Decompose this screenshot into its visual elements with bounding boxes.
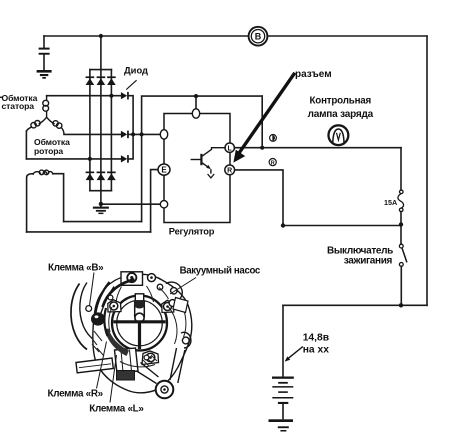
wire rotor left lead bbox=[27, 174, 33, 232]
bottom bracket bbox=[142, 351, 159, 365]
alternator body outline bbox=[93, 274, 192, 393]
wire field node riser bbox=[142, 96, 263, 134]
wire B+ right side bbox=[426, 36, 428, 305]
hatching lower left bbox=[105, 329, 130, 357]
diode VD2 bridge top middle bbox=[97, 76, 106, 85]
fuse F1 15A bbox=[398, 190, 404, 212]
node marker circled L bbox=[270, 135, 277, 142]
leader line B bbox=[90, 273, 95, 306]
wire battery bottom bbox=[283, 304, 427, 306]
wire bridge feed bbox=[100, 36, 102, 70]
ignition switch S1 bbox=[399, 244, 407, 266]
left ear plate bbox=[108, 300, 121, 312]
wire E terminal loop bbox=[151, 170, 159, 232]
regulator box U1 bbox=[164, 114, 230, 223]
label stator winding bbox=[0, 96, 3, 98]
wire battery drop bbox=[282, 305, 284, 376]
wire bridge to ground bbox=[100, 191, 102, 207]
svg-text:ротора: ротора bbox=[34, 146, 63, 156]
diode bridge top bar bbox=[90, 69, 112, 71]
stator winding symbol bbox=[26, 96, 64, 135]
svg-text:статора: статора bbox=[2, 101, 35, 111]
diode bridge column 1 bbox=[89, 70, 91, 191]
wire trio D3 output bbox=[129, 134, 133, 159]
main ground symbol bbox=[93, 207, 109, 215]
wire fuse to switch bbox=[400, 212, 402, 245]
claw prong outer bbox=[71, 284, 87, 350]
terminal L bbox=[225, 143, 234, 152]
diode bridge column 3 bbox=[110, 70, 112, 191]
regulator terminal top bbox=[192, 109, 199, 118]
node marker circled R bbox=[269, 159, 276, 167]
wire rotor inner bottom bbox=[64, 221, 142, 223]
junction fuse-switch node bbox=[399, 222, 403, 226]
body casting details bbox=[109, 286, 186, 367]
svg-text:Диод: Диод bbox=[124, 65, 148, 76]
connector block terminal L bbox=[115, 348, 139, 374]
hatching below wheel bbox=[143, 355, 157, 366]
wire R terminal line bbox=[235, 170, 401, 226]
capacitor C1 plates bbox=[39, 48, 50, 55]
junction battery rail bbox=[399, 303, 403, 307]
body heavy edge arc bbox=[103, 280, 135, 308]
junction L lamp node bbox=[260, 146, 264, 150]
arm to idler bbox=[135, 363, 159, 384]
wire trio D2 output to regulator bbox=[129, 133, 164, 135]
bolt left bbox=[86, 306, 92, 312]
svg-text:зажигания: зажигания bbox=[344, 255, 393, 266]
diode VD6 bridge bottom right bbox=[107, 172, 116, 181]
junction trio output bbox=[131, 132, 135, 136]
transistor Q1 emitter arrow bbox=[206, 165, 211, 169]
svg-text:R: R bbox=[271, 160, 275, 166]
shaft bbox=[135, 301, 145, 317]
wire switch to battery line bbox=[400, 266, 402, 305]
svg-text:Клемма «В»: Клемма «В» bbox=[48, 263, 104, 274]
claw prong inner bbox=[80, 283, 94, 340]
junction ground node bbox=[99, 202, 103, 206]
svg-text:E: E bbox=[161, 165, 167, 174]
leader line vacuum pump bbox=[170, 278, 196, 295]
svg-text:разъем: разъем bbox=[295, 69, 332, 80]
junction regulator top feed bbox=[194, 94, 198, 98]
alternator pictorial bbox=[71, 272, 196, 403]
diode bridge column 2 bbox=[100, 70, 102, 191]
junction R wire corner bbox=[281, 223, 285, 227]
wire phase 3 row bbox=[26, 158, 121, 160]
charge lamp bbox=[329, 125, 349, 145]
capacitor C1 lead bottom bbox=[43, 55, 45, 70]
annotation arrow 14.8v bbox=[285, 347, 303, 362]
svg-text:на хх: на хх bbox=[303, 344, 330, 355]
ground under battery bbox=[269, 419, 294, 431]
diode VD3 bridge top right bbox=[107, 76, 116, 85]
pump wheel bbox=[112, 296, 167, 351]
rotor winding symbol bbox=[33, 170, 53, 175]
svg-text:L: L bbox=[228, 145, 233, 152]
svg-text:14,8в: 14,8в bbox=[303, 332, 329, 343]
terminal B blob bbox=[91, 312, 105, 325]
wire ground to regulator bbox=[101, 203, 164, 205]
ground under capacitor bbox=[37, 70, 52, 79]
capacitor C1 lead top bbox=[43, 36, 45, 48]
wire field node lower bbox=[141, 134, 143, 221]
transistor Q1 bbox=[191, 148, 225, 178]
idler circle bbox=[156, 381, 174, 399]
wire rotor outer bottom bbox=[27, 231, 151, 233]
junction field node bbox=[140, 132, 144, 136]
right ear top bbox=[166, 282, 182, 300]
wire node to regulator top bbox=[195, 96, 197, 109]
right ear plate bbox=[162, 300, 174, 312]
regulator terminal lower-left bbox=[160, 201, 167, 208]
terminal B output bbox=[249, 27, 268, 46]
wire phase 2 row bbox=[64, 133, 121, 135]
leader line L bbox=[110, 355, 117, 403]
right side bolt bbox=[169, 300, 176, 307]
terminal B cable bbox=[96, 282, 110, 313]
wire phase 1 row bbox=[47, 95, 121, 97]
svg-text:R: R bbox=[227, 168, 232, 175]
strut to idler bbox=[170, 348, 185, 383]
battery lower lead bbox=[282, 404, 284, 419]
svg-text:Клемма «L»: Клемма «L» bbox=[89, 404, 144, 415]
junction phase1-column3 bbox=[109, 94, 113, 98]
diode VD1 bridge top left bbox=[86, 76, 95, 85]
svg-text:Регулятор: Регулятор bbox=[169, 226, 215, 236]
right lower ear bbox=[181, 332, 191, 348]
wire rotor right lead bbox=[53, 174, 64, 222]
wire B+ top bbox=[44, 35, 427, 37]
wire trio D1 output bbox=[129, 96, 133, 135]
wheel spokes bbox=[113, 322, 165, 349]
diode trio D1 bbox=[121, 92, 129, 100]
pipe terminal R bbox=[76, 358, 113, 373]
wire fuse top bbox=[400, 148, 402, 190]
junction phase3-column1 bbox=[88, 157, 92, 161]
diode trio D3 bbox=[121, 155, 129, 163]
svg-text:лампа заряда: лампа заряда bbox=[308, 109, 374, 120]
diode bridge bottom bar bbox=[90, 190, 112, 192]
diode VD5 bridge bottom middle bbox=[97, 172, 106, 181]
wire phase 3 drop bbox=[25, 131, 27, 159]
leader line R bbox=[97, 342, 107, 389]
svg-text:Клемма «R»: Клемма «R» bbox=[48, 388, 104, 399]
diode VD4 bridge bottom left bbox=[86, 172, 95, 181]
svg-text:15А: 15А bbox=[384, 198, 397, 207]
wire lamp line bbox=[234, 147, 401, 149]
svg-text:Вакуумный насос: Вакуумный насос bbox=[180, 266, 261, 277]
diode trio D2 bbox=[121, 131, 129, 139]
junction B+ feed bbox=[99, 34, 103, 38]
top bracket bbox=[121, 272, 143, 286]
wheel hub knob bbox=[135, 313, 144, 322]
svg-text:Контрольная: Контрольная bbox=[310, 96, 372, 107]
svg-text:В: В bbox=[255, 32, 262, 42]
annotation line diode bbox=[126, 80, 136, 89]
regulator terminal left bbox=[160, 130, 167, 139]
annotation arrow razyem bbox=[233, 73, 294, 163]
top right bolts bbox=[148, 274, 156, 282]
terminal R bbox=[225, 165, 235, 175]
wire node drop to lamp line bbox=[261, 96, 263, 148]
battery G1 plates bbox=[272, 377, 294, 405]
terminal E bbox=[158, 164, 170, 175]
